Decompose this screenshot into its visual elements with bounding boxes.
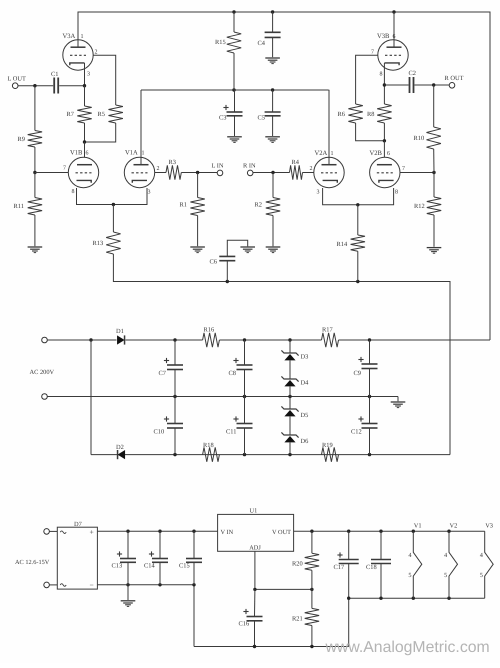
svg-text:R IN: R IN [243,163,256,170]
wire node to V1B grid [35,172,69,174]
wire D2 branch vertical [90,340,92,455]
wire C17 bottom [348,564,350,599]
svg-text:R10: R10 [414,135,425,142]
wire bridge - rail [97,585,194,647]
capacitor C10 [154,416,184,435]
wire C18 bottom [380,564,382,599]
svg-text:−: − [90,581,94,590]
terminal AC input upper [42,337,48,343]
wire R IN to R4 [253,172,290,174]
svg-text:www.AnalogMetric.com: www.AnalogMetric.com [325,639,490,656]
wire C3 top [234,90,236,112]
terminal heater AC lower [44,582,50,588]
heater V3 [480,523,493,599]
capacitor C17 [334,552,359,571]
svg-text:C8: C8 [229,370,236,377]
svg-text:C10: C10 [154,429,165,436]
capacitor C8 [229,358,253,377]
wire V1A grid to R3 [155,172,166,174]
triode V2A [310,150,345,196]
wire C6 bottom [226,261,228,282]
terminal L IN [212,163,224,176]
wire C5 bottom [272,116,274,136]
ground R1 [190,246,205,248]
wire ground stub heater [127,585,129,600]
wire middle rail ground stub [397,397,399,402]
capacitor C6 [210,256,236,265]
wire C16 top [254,589,256,616]
capacitor C5 [258,112,281,122]
resistor R7 [67,106,92,123]
wire C16 bottom [254,621,256,647]
svg-text:C6: C6 [210,259,217,266]
wire C8 bottom [244,370,246,397]
svg-text:C2: C2 [409,70,416,77]
wire R3 to L IN [181,172,217,174]
junction R14 / return rail [356,280,359,283]
wire bottom rail [91,454,450,456]
capacitor C18 [366,560,391,572]
junction R21 / bottom rail [310,645,313,648]
wire C2 to R OUT [415,84,450,86]
svg-text:R4: R4 [292,159,300,166]
wire R8 top [383,85,385,104]
junction V2 / return rail [447,597,450,600]
wire D4 bottom [289,386,291,396]
wire plate supply rail V1A-V2A [141,89,329,91]
wire C6 top to ground [227,240,247,256]
wire C14 bottom [159,562,161,585]
wire V3B plate lead [393,12,395,47]
svg-text:C15: C15 [179,563,190,570]
resistor R21 [292,608,319,625]
svg-text:R18: R18 [203,442,214,449]
junction ADJ / C16 [253,588,256,591]
ground C6 [240,246,255,248]
junction C17 / return rail [347,597,350,600]
wire R20 top [311,531,313,553]
svg-text:D4: D4 [301,380,310,387]
svg-text:5: 5 [480,572,483,579]
wire C18 top [380,531,382,559]
svg-text:V1: V1 [414,523,422,530]
junction C16 / bottom rail [253,645,256,648]
wire R10 bottom [433,149,435,173]
capacitor C12 [351,416,378,435]
junction C8-C11 / middle rail [243,395,246,398]
wire R15 top [233,12,235,32]
svg-text:7: 7 [402,166,405,172]
wire V2 cathodes to R14 [323,188,394,205]
terminal AC input lower [42,394,48,400]
wire D1 to R16 [126,339,203,341]
terminal R OUT [445,75,464,88]
resistor R16 [203,327,220,348]
wire R17 to B+ rail [339,339,491,341]
junction R20 / out rail [310,530,313,533]
svg-text:C17: C17 [334,564,345,571]
ground R11 [28,246,43,248]
junction C12 / bottom rail [368,453,371,456]
svg-text:V2B: V2B [370,150,383,157]
svg-text:R3: R3 [169,159,176,166]
triode V3A [63,33,98,78]
junction R9 / R11 / V1B grid [33,171,36,174]
svg-text:R16: R16 [204,327,215,334]
svg-text:R1: R1 [180,202,187,209]
wire V3B grid to R6 [356,55,378,104]
svg-text:V OUT: V OUT [272,529,291,536]
wire C1 to V3A cathode [59,85,84,87]
resistor R11 [14,198,43,216]
ground C5 [265,136,280,138]
junction C2 / R10 [432,83,435,86]
svg-text:6: 6 [387,151,390,157]
junction D3 / top rail [288,338,291,341]
resistor R13 [93,232,121,254]
wire R12 bottom [433,215,435,247]
svg-text:V3: V3 [485,523,493,530]
svg-text:V1B: V1B [70,150,83,157]
resistor R20 [292,553,319,570]
junction D4-D5 / middle rail [288,395,291,398]
resistor R17 [322,327,339,348]
svg-text:L OUT: L OUT [8,76,26,83]
svg-text:7: 7 [371,50,374,56]
junction V2 / out rail [447,530,450,533]
svg-text:R21: R21 [292,616,303,623]
svg-text:2: 2 [95,50,98,56]
junction V2B plate node [383,139,386,142]
ground heater supply [121,600,136,602]
wire C11 top [244,397,246,424]
junction C13 / + rail [126,530,129,533]
terminal R IN [243,163,256,176]
junction C8 / top rail [243,338,246,341]
svg-text:R OUT: R OUT [445,75,464,82]
junction C5 / plate rail [271,88,274,91]
junction C17 / out rail [347,530,350,533]
wire C7 top [174,340,176,365]
triode V1B [63,150,99,196]
junction C7 / top rail [173,338,176,341]
junction C13 / - rail [126,583,129,586]
svg-text:C18: C18 [366,564,377,571]
junction C18 / out rail [379,530,382,533]
junction V1 / out rail [412,530,415,533]
wire C10 top [174,397,176,424]
resistor R12 [414,197,441,215]
ground R12 [427,247,442,249]
wire R14 top [357,205,359,235]
diode D1 [116,328,125,345]
zener D4 [281,376,309,386]
ground R2 [266,246,281,248]
junction cathode node L [112,203,115,206]
svg-text:R8: R8 [367,111,374,118]
capacitor C4 [258,32,281,47]
svg-text:7: 7 [63,166,66,172]
svg-text:3: 3 [148,190,151,196]
resistor R6 [338,104,363,123]
wire V3B cathode to C2 [384,84,408,86]
svg-text:8: 8 [395,190,398,196]
wire R4 to V2A grid [303,172,314,174]
svg-text:U1: U1 [250,508,258,515]
wire R16 to R17 [219,339,321,341]
svg-text:C4: C4 [258,40,266,47]
wire C13 bottom [127,562,129,585]
heater V2 [444,523,457,599]
svg-text:8: 8 [380,72,383,78]
svg-text:D5: D5 [301,412,309,419]
wire R2 bottom [272,216,274,247]
wire C5 top [272,90,274,112]
junction V1B plate node [83,140,86,143]
resistor R19 [322,442,339,462]
wire R11 bottom [34,215,36,246]
svg-text:C9: C9 [354,370,361,377]
junction C9 / top rail [368,338,371,341]
wire V3A cathode lead [84,63,86,86]
svg-text:D7: D7 [74,521,83,528]
svg-text:V3A: V3A [63,33,76,40]
capacitor C1 [51,71,58,94]
svg-text:R17: R17 [322,327,333,334]
junction C15 / + rail [192,530,195,533]
wire R21 bottom [311,626,313,647]
svg-text:1: 1 [81,34,84,40]
wire bridge + rail [97,530,217,532]
ground C4 [265,57,280,59]
wire V1A plate lead [140,90,142,165]
wire C4 bottom [272,37,274,57]
svg-text:3: 3 [87,72,90,78]
wire B+ top rail [78,12,490,340]
svg-text:3: 3 [317,190,320,196]
zener D3 [281,350,308,360]
wire R14 bottom [357,251,359,281]
svg-text:R13: R13 [93,240,104,247]
wire R15 bottom [233,53,235,90]
wire AC upper to D1 [47,339,116,341]
junction R15 / plate rail [232,88,235,91]
capacitor C11 [226,416,253,435]
junction R2 / R IN [271,171,274,174]
wire C13 top [127,531,129,558]
svg-text:R20: R20 [292,561,303,568]
svg-text:R6: R6 [338,111,345,118]
resistor R3 [166,159,181,180]
junction C15 / - rail [192,583,195,586]
wire regulator bottom rail [194,646,349,648]
wire V3A grid to R5 [93,55,115,105]
junction V1 / return rail [412,597,415,600]
wire D5-D6 [289,416,291,435]
wire C15 bottom [193,562,195,585]
svg-text:D1: D1 [116,328,124,335]
junction C11 / bottom rail [243,453,246,456]
junction AC node / D2 branch [89,338,92,341]
resistor R5 [98,105,123,123]
zener D6 [281,432,308,445]
wire C15 top [193,531,195,558]
svg-text:V IN: V IN [221,529,234,536]
wire heater AC lower [49,584,57,586]
terminal L OUT [8,76,26,89]
wire C12 top [369,397,371,424]
wire C12 bottom [369,428,371,455]
junction R1 / L IN [196,171,199,174]
junction C7-C10 / middle rail [173,395,176,398]
svg-text:C7: C7 [159,370,167,377]
bridge rectifier D7 [57,521,97,590]
svg-text:C13: C13 [112,563,123,570]
wire V2B grid to R10/R12 node [400,172,434,174]
triode V2B [370,150,406,196]
wire V2B plate lead [383,141,385,158]
junction C18 / return rail [379,597,382,600]
svg-text:R15: R15 [215,39,226,46]
svg-text:5: 5 [444,572,447,579]
wire C9 bottom [369,369,371,397]
wire R13 bottom to cathode return rail [113,254,450,455]
zener D5 [281,406,308,419]
svg-text:C1: C1 [51,71,58,78]
junction C6 / return rail [226,280,229,283]
wire R1 top [197,173,199,198]
wire V2A plate lead [328,90,330,165]
wire D3 top [289,340,291,353]
junction cathode node R [356,203,359,206]
svg-text:V2: V2 [450,523,458,530]
wire R11 top [34,173,36,198]
junction C10 / bottom rail [173,453,176,456]
wire R12 top [433,173,435,198]
wire L OUT to C1 [18,85,53,87]
svg-text:L IN: L IN [212,163,224,170]
wire R21 top [311,589,313,608]
resistor R15 [215,32,241,53]
wire R13 top [112,205,114,233]
capacitor C3 [219,105,243,122]
wire C7 bottom [174,370,176,397]
wire R6/R8 bottoms to V2B plate [356,123,385,141]
svg-text:6: 6 [86,151,89,157]
triode V3B [371,33,408,78]
resistor R10 [414,127,441,149]
capacitor C16 [239,609,263,628]
svg-text:R2: R2 [255,202,262,209]
ground middle rail [391,401,406,403]
ground C3 [227,136,242,138]
wire R2 top [272,173,274,198]
svg-text:R7: R7 [67,111,75,118]
svg-text:AC 200V: AC 200V [30,369,55,376]
wire R10 top [433,85,435,127]
junction V3B cathode / C2 [383,83,386,86]
wire C11 bottom [244,428,246,455]
svg-text:1: 1 [331,151,334,157]
wire C3 bottom [234,116,236,136]
wire R20 bottom [311,570,313,589]
svg-text:2: 2 [157,166,160,172]
capacitor C15 [179,559,202,570]
wire C10 bottom [174,428,176,455]
wire R9 bottom to node [34,147,36,173]
junction R20 / R21 [310,588,313,591]
junction V3A cathode / R7 [83,84,86,87]
wire AC lower / middle rail [47,396,398,398]
wire heater AC upper [49,530,57,532]
svg-text:V2A: V2A [315,150,328,157]
svg-text:R9: R9 [18,136,25,143]
junction top rail / R15 [232,10,235,13]
wire R9 top [34,86,36,131]
wire C17 top [348,531,350,559]
wire C14 top [159,531,161,558]
resistor R14 [337,235,366,251]
wire D5 top [289,397,291,410]
svg-text:V1A: V1A [125,150,138,157]
svg-text:2: 2 [310,166,313,172]
junction L OUT / R9 [33,84,36,87]
svg-text:C16: C16 [239,621,250,628]
wire U1 ADJ lead [255,551,312,589]
svg-text:C14: C14 [144,563,155,570]
terminal heater AC upper [44,529,50,535]
wire D6 bottom [289,442,291,454]
wire U1 output rail [294,530,485,532]
wire heater return rail [349,598,485,646]
resistor R18 [203,442,220,462]
diode D2 [116,444,125,459]
svg-text:R12: R12 [414,203,425,210]
svg-text:6: 6 [393,34,396,40]
wire C9 top [369,340,371,364]
svg-text:AC 12.6-15V: AC 12.6-15V [15,559,50,566]
wire R7 top [84,86,86,106]
resistor R4 [290,159,303,180]
wire C8 top [244,340,246,365]
wire V3B cathode lead [383,63,385,85]
capacitor C2 [409,70,416,93]
svg-text:D3: D3 [301,354,309,361]
svg-text:C12: C12 [351,429,362,436]
junction D6 / bottom rail [288,453,291,456]
svg-text:ADJ: ADJ [249,545,261,552]
wire R7/R5 bottoms to V1B plate [85,123,116,142]
wire C4 top [272,12,274,32]
svg-text:R5: R5 [98,111,105,118]
resistor R9 [18,131,43,148]
junction top rail / C4 [271,10,274,13]
wire V1 cathodes to R13 [77,188,148,205]
junction C14 / - rail [158,583,161,586]
svg-text:R14: R14 [337,241,348,248]
junction C14 / + rail [158,530,161,533]
regulator U1 [218,508,294,552]
capacitor C14 [144,551,168,569]
svg-text:C11: C11 [226,429,236,436]
svg-text:5: 5 [408,572,411,579]
svg-text:D2: D2 [116,444,124,451]
capacitor C7 [159,358,184,377]
junction top rail / V3B plate [392,10,395,13]
heater V1 [408,523,421,599]
svg-text:D6: D6 [301,438,309,445]
resistor R2 [255,198,281,216]
